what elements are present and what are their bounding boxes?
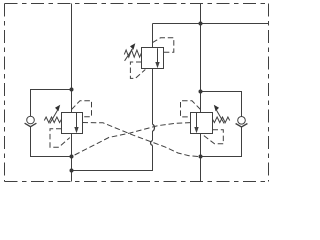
valve V3 flow arrow	[194, 113, 198, 133]
junction node: left line / outlet line	[70, 169, 74, 173]
wire hop: outlet line over lower crossover	[151, 141, 153, 146]
valve V2 spring	[124, 50, 141, 57]
wire: left port line from top border	[71, 4, 73, 113]
valve V1 flow arrow	[74, 113, 78, 133]
junction node: left line / check top	[70, 88, 74, 92]
check valve CV1 seat	[25, 123, 37, 127]
valve V1 spring	[44, 117, 61, 123]
valve V2 flow arrow	[155, 48, 159, 68]
check valve CV2 seat	[236, 124, 248, 128]
pilot line: V2 drain loop	[130, 62, 145, 78]
pilot line: V3 upper loop	[181, 101, 201, 117]
pilot line: V2 right loop	[153, 38, 174, 52]
junction node: right line / check top	[199, 90, 203, 94]
pilot line: crossover from V3 to left line (ascending)	[72, 123, 190, 157]
wire: left check branch bottom	[31, 127, 72, 157]
wire: right check branch bottom	[201, 127, 242, 157]
wire: center valve V2 inlet drop	[152, 24, 154, 48]
wire: center outlet upper segment	[152, 69, 154, 125]
relief valve V1 body (left)	[62, 113, 83, 134]
pilot line: V1 upper loop	[72, 101, 92, 117]
wire: left main below valve V1	[71, 134, 73, 182]
junction node: right line / top line	[199, 22, 203, 26]
wire: top horizontal line to right border	[153, 23, 269, 25]
wire: left check branch top	[31, 90, 72, 117]
relief valve V3 body (right)	[191, 113, 213, 134]
pilot line: V3 drain loop	[203, 130, 224, 144]
pilot line: crossover from V1 to right line (descending)	[83, 123, 199, 157]
wire: right check branch top	[201, 92, 242, 117]
check valve CV2 circle	[238, 117, 246, 125]
valve V3 adjustment arrow	[214, 105, 224, 124]
relief valve V2 body (center)	[142, 48, 164, 69]
wire: right main below valve V3	[200, 134, 202, 182]
wire: center outlet segment between hops	[152, 131, 154, 141]
junction node: left line / check bottom	[70, 155, 74, 159]
wire: right port line from top border	[200, 4, 202, 113]
wire: outlet line of center valve V2 to left main	[72, 145, 153, 170]
wire hop: outlet line over upper crossover	[153, 124, 155, 131]
enclosure boundary (dashed manifold border)	[5, 4, 269, 182]
valve V3 spring	[213, 117, 230, 123]
junction node: right line / check bottom	[199, 155, 203, 159]
pilot line: V1 drain loop	[50, 129, 70, 147]
valve V2 adjustment arrow	[125, 43, 136, 61]
check valve CV1 circle	[27, 116, 35, 124]
valve V1 adjustment arrow	[50, 105, 60, 124]
